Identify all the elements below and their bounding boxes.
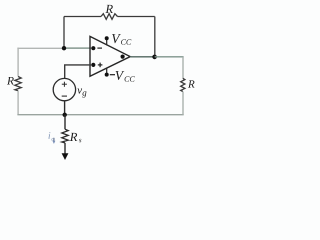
wire: feedback left vertical — [63, 17, 65, 49]
power pin +VCC — [105, 36, 109, 45]
wire: right vertical lower lead — [182, 92, 184, 115]
wire: left loop vertical upper — [17, 48, 19, 77]
wire: output segment — [130, 56, 155, 58]
resistor R2 (left) — [15, 77, 21, 91]
resistor R3 (right) — [181, 78, 185, 91]
wire: output to right corner — [155, 56, 184, 58]
wire: left loop vertical lower — [17, 91, 19, 115]
resistor Rs (load) — [62, 129, 68, 143]
junction: feedback joins inverting input — [62, 46, 66, 50]
wire: bottom rail — [17, 114, 183, 116]
label io (current, blue) — [48, 132, 55, 144]
label -VCC — [110, 71, 135, 82]
label R (right resistor) — [188, 80, 195, 87]
label Rs — [70, 133, 82, 142]
resistor R1 (feedback) — [64, 14, 155, 20]
wire: noninverting input — [65, 65, 91, 79]
wire: right vertical upper lead — [182, 57, 184, 79]
power pin -VCC — [105, 68, 109, 77]
label vg — [77, 89, 86, 98]
junction: feedback/output node — [152, 55, 157, 60]
op-amp U1 — [90, 36, 130, 76]
wire: load bottom lead — [64, 143, 66, 154]
wire: feedback right vertical — [154, 17, 156, 58]
junction: source/load node — [62, 113, 66, 117]
wire: load top lead — [64, 115, 66, 130]
label R (left resistor) — [7, 77, 14, 85]
wire: source bottom lead — [64, 101, 66, 115]
label VCC — [112, 34, 131, 45]
wire: inverting input net (junction to op-amp) — [64, 47, 91, 49]
source vg — [53, 78, 75, 100]
label R (feedback resistor) — [105, 5, 113, 13]
wire: inverting input net (left segment) — [17, 47, 64, 49]
ground arrow — [62, 153, 69, 160]
